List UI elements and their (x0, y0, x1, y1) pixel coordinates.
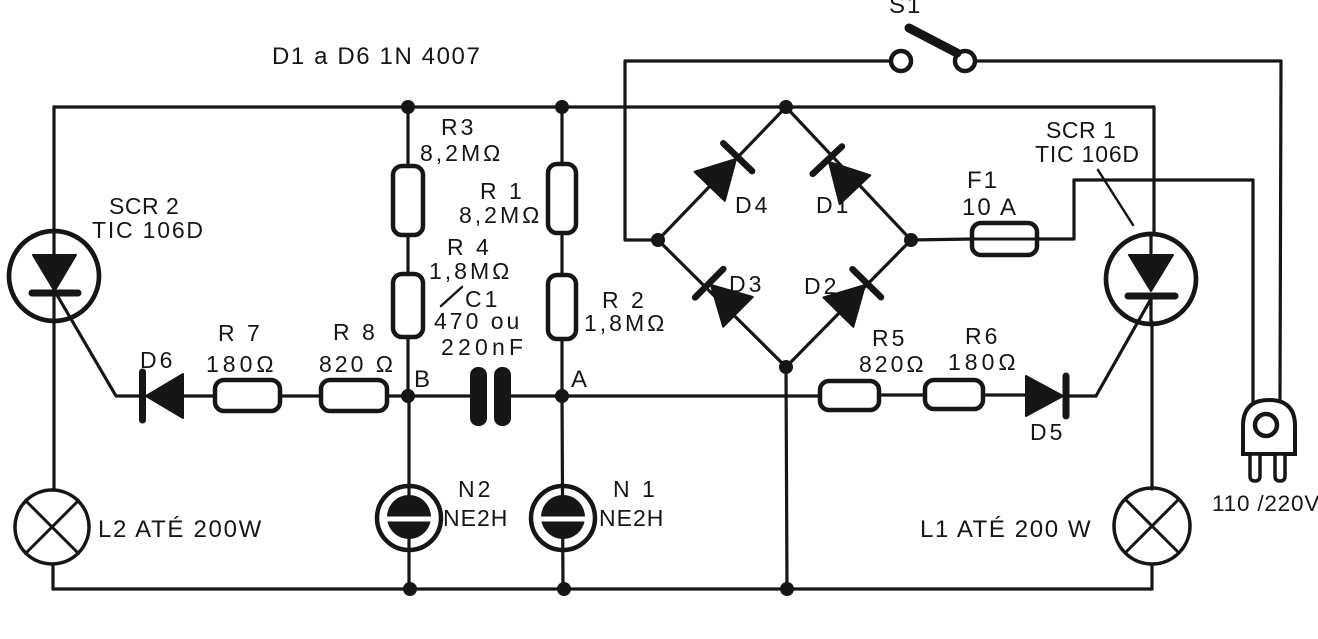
label L1 (920, 516, 1092, 543)
junction N2 bottom (403, 582, 417, 596)
wire C1 to node A (511, 394, 562, 397)
wire node-B column B-N2 (407, 397, 410, 589)
wire node-A column A-N1 (562, 397, 563, 589)
svg-text:R 1: R 1 (480, 178, 525, 204)
wire top rail (54, 105, 1154, 108)
wire D5 to SCR1 gate corner (1066, 394, 1096, 397)
wire node-A column top (560, 107, 563, 165)
diode D3 (695, 269, 753, 327)
svg-text:820Ω: 820Ω (859, 351, 927, 377)
wire node-B column top (406, 107, 409, 167)
wire left rail upper (52, 107, 55, 233)
wire switch to plug right cord (975, 61, 1281, 402)
svg-text:R 8: R 8 (333, 319, 378, 345)
diode D5 (1026, 376, 1066, 416)
SCR2 anode lead (52, 231, 55, 256)
label SCR2 (92, 193, 205, 243)
lamp L2 (15, 490, 89, 564)
wire R6 to D5 (983, 393, 1027, 396)
svg-text:N2: N2 (458, 476, 493, 502)
svg-text:B: B (414, 366, 431, 393)
junction node B top (401, 100, 415, 114)
svg-text:L1 ATÉ 200 W: L1 ATÉ 200 W (920, 516, 1092, 543)
wire node-A column R2-A (560, 338, 563, 397)
label R2 (584, 287, 667, 336)
svg-text:8,2MΩ: 8,2MΩ (420, 140, 503, 166)
svg-text:TIC 106D: TIC 106D (92, 217, 205, 243)
resistor R4 (393, 274, 423, 337)
wire bridge right to fuse (911, 239, 973, 240)
label D5 (1030, 419, 1065, 445)
svg-text:R5: R5 (872, 325, 907, 351)
switch S1 right contact (955, 51, 975, 71)
SCR1 cathode lead (1149, 299, 1152, 323)
wire node A to R5 (562, 394, 820, 397)
label D4 (735, 192, 770, 218)
SCR1 triangle (1129, 255, 1173, 291)
neon lamp N2 (377, 486, 441, 550)
svg-text:NE2H: NE2H (599, 505, 664, 531)
svg-text:10 A: 10 A (962, 194, 1018, 221)
resistor R7 (215, 380, 280, 411)
resistor R1 (548, 164, 576, 233)
svg-text:A: A (571, 366, 588, 393)
label SCR1 (1035, 117, 1140, 167)
wire SCR1 to L1 (1150, 322, 1153, 489)
plug body (1243, 400, 1295, 454)
svg-text:D3: D3 (729, 271, 764, 297)
wire bridge bottom column (786, 367, 787, 589)
SCR2 body circle (9, 231, 99, 321)
resistor R2 (548, 275, 576, 339)
junction bridge left (651, 233, 665, 247)
svg-text:D1 a D6 1N 4007: D1 a D6 1N 4007 (272, 43, 481, 70)
svg-text:D6: D6 (140, 347, 175, 373)
diode D4 (695, 143, 753, 201)
svg-text:D5: D5 (1030, 419, 1065, 445)
SCR2 cathode lead (52, 296, 55, 321)
label R6 (948, 323, 1020, 375)
svg-text:110 /220V: 110 /220V (1212, 491, 1318, 516)
diode D2 (823, 269, 881, 327)
label node A (571, 366, 588, 393)
label 110/220V (1212, 491, 1318, 516)
svg-text:1,8MΩ: 1,8MΩ (584, 310, 667, 336)
junction node A top (555, 100, 569, 114)
resistor R5 (820, 381, 879, 410)
label F1 (962, 167, 1018, 221)
wire SCR1 gate diagonal (1096, 297, 1152, 396)
label R7 (206, 320, 278, 377)
node A (555, 389, 569, 403)
svg-text:D4: D4 (735, 192, 770, 218)
svg-text:R 7: R 7 (218, 320, 263, 346)
svg-text:N 1: N 1 (613, 476, 658, 502)
label node B (414, 366, 431, 393)
SCR1 label pointer (1098, 170, 1133, 225)
label R4 (429, 234, 512, 284)
junction bridge bottom (779, 360, 793, 374)
svg-text:180Ω: 180Ω (948, 349, 1020, 375)
svg-text:R3: R3 (441, 114, 476, 140)
wire left rail lower (51, 564, 54, 589)
junction bridge right (904, 233, 918, 247)
label R3 (420, 114, 503, 166)
svg-text:F1: F1 (967, 167, 999, 194)
junction N1 bottom (557, 582, 571, 596)
wire R5 to R6 (878, 393, 925, 396)
resistor R8 (321, 380, 387, 411)
label D3 (729, 271, 764, 297)
svg-text:D1: D1 (816, 192, 851, 218)
node B (401, 389, 415, 403)
wire R7 to R8 (279, 394, 321, 397)
junction bridge top (779, 100, 793, 114)
label diodes note (272, 43, 481, 70)
svg-text:220nF: 220nF (441, 334, 527, 360)
neon lamp N1 (531, 486, 595, 550)
wire node-B column R4-B (406, 336, 409, 397)
lamp L1 (1114, 488, 1190, 564)
label N2 (443, 476, 508, 531)
label R1 (459, 178, 542, 228)
wire bottom rail (53, 587, 1152, 590)
diode D1 (813, 147, 871, 205)
plug prong left (1250, 454, 1260, 481)
junction bridge bottom rail (780, 582, 794, 596)
bridge diamond wires (658, 107, 911, 367)
svg-text:820 Ω: 820 Ω (319, 351, 396, 377)
switch S1 arm (909, 28, 957, 53)
SCR2 triangle (33, 255, 76, 291)
label D1 (816, 192, 851, 218)
wire R8 to node B (387, 394, 470, 397)
SCR2 cathode bar (32, 290, 78, 297)
wire node-B column R3-R4 (406, 234, 409, 275)
svg-text:TIC 106D: TIC 106D (1035, 141, 1140, 167)
SCR1 anode lead (1149, 234, 1152, 256)
C1 pointer slash (441, 287, 462, 306)
label R8 (319, 319, 396, 377)
label D2 (804, 273, 839, 299)
wire SCR2 gate (57, 295, 139, 396)
resistor R3 (393, 166, 423, 235)
label S1 (889, 0, 922, 19)
svg-text:SCR 2: SCR 2 (109, 193, 179, 219)
capacitor C1 left plate (470, 367, 487, 426)
resistor R6 (925, 380, 983, 409)
svg-text:NE2H: NE2H (443, 505, 508, 531)
label N1 (599, 476, 664, 531)
wire L1 bottom (1150, 564, 1153, 589)
fuse F1 (972, 223, 1037, 255)
label R5 (859, 325, 927, 377)
svg-text:1,8MΩ: 1,8MΩ (429, 258, 512, 284)
SCR1 cathode bar (1128, 293, 1175, 300)
svg-text:R 4: R 4 (447, 234, 492, 260)
wire left rail mid (52, 320, 55, 490)
plug hole (1255, 414, 1277, 436)
plug prong right (1275, 454, 1285, 481)
diode D6 (143, 372, 184, 420)
svg-text:R6: R6 (965, 323, 1000, 349)
svg-text:D2: D2 (804, 273, 839, 299)
svg-text:SCR 1: SCR 1 (1046, 117, 1116, 143)
wire node-A column R1-R2 (560, 232, 563, 276)
wire SCR1 top feed (1152, 107, 1155, 234)
svg-text:470 ou: 470 ou (434, 308, 522, 334)
svg-text:180Ω: 180Ω (206, 351, 278, 377)
svg-text:S1: S1 (889, 0, 922, 19)
label L2 (98, 516, 263, 543)
SCR1 body circle (1106, 234, 1196, 324)
capacitor C1 right plate (494, 367, 511, 426)
switch S1 left contact (891, 51, 911, 71)
wire bridge left to switch (625, 61, 891, 240)
svg-text:8,2MΩ: 8,2MΩ (459, 202, 542, 228)
label C1 (434, 286, 527, 360)
svg-text:L2 ATÉ 200W: L2 ATÉ 200W (98, 516, 263, 543)
wire fuse to plug left cord (1036, 180, 1253, 402)
label D6 (140, 347, 175, 373)
wire D6 to R7 (183, 394, 216, 397)
